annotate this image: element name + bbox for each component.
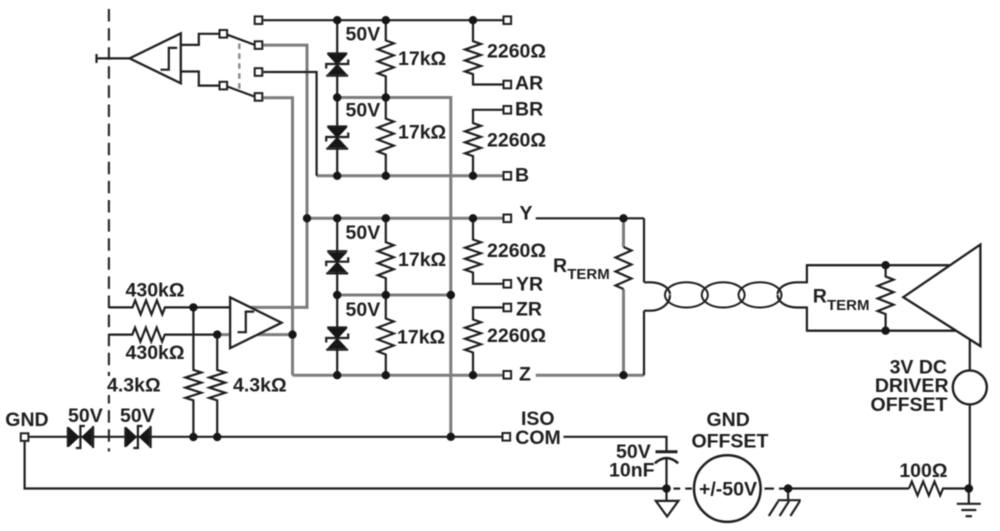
- wire ISO COM to capacitor: [564, 437, 667, 451]
- svg-text:BR: BR: [515, 99, 543, 121]
- wire switch pole mid to B rail: [263, 72, 316, 176]
- svg-text:100Ω: 100Ω: [899, 460, 947, 482]
- switch coupling dashed link: [238, 44, 240, 90]
- label 17k Y: [398, 249, 446, 271]
- svg-text:2260Ω: 2260Ω: [487, 240, 546, 262]
- resistor 100ohm: [909, 482, 969, 496]
- terminal square BR: [504, 106, 512, 114]
- svg-text:OFFSET: OFFSET: [691, 431, 768, 453]
- wire dashes to GND OFFSET source right: [765, 488, 785, 490]
- diode D2 TVS 50V: [326, 127, 348, 149]
- node ISO COM rail dots: [189, 433, 455, 442]
- svg-text:50V: 50V: [68, 405, 103, 427]
- svg-text:2260Ω: 2260Ω: [487, 130, 546, 152]
- label AR: [515, 72, 543, 94]
- wire node YZ (gray): [337, 294, 451, 297]
- label B: [515, 165, 529, 187]
- svg-text:17kΩ: 17kΩ: [398, 48, 446, 70]
- svg-text:10nF: 10nF: [609, 460, 655, 482]
- svg-text:2260Ω: 2260Ω: [487, 41, 546, 63]
- terminal square switch row4: [255, 93, 263, 101]
- wire dashes to GND OFFSET source left: [674, 488, 692, 490]
- wire ISO COM rail: [29, 436, 502, 438]
- op-amp U1 isolated receiver: [130, 33, 181, 83]
- svg-text:YR: YR: [516, 274, 543, 296]
- diode D1 TVS 50V: [326, 54, 348, 76]
- wire driver output to node (gray): [217, 333, 292, 336]
- wire cable entry Z: [643, 311, 645, 376]
- terminal square ZR: [504, 304, 512, 312]
- diode D4 TVS 50V: [326, 328, 348, 350]
- wire receiver inputs right side: [807, 265, 957, 331]
- wire receiver input A stub: [181, 34, 219, 45]
- wire node AB to ISO COM (gray): [337, 98, 451, 437]
- voltage source GND OFFSET +/-50V: [694, 455, 761, 522]
- label 4.3k right: [233, 375, 287, 397]
- svg-text:AR: AR: [515, 72, 543, 94]
- wire driver offset to bottom rail: [969, 404, 971, 488]
- label 17k Z: [397, 327, 445, 349]
- resistor RTERM left body: [616, 247, 632, 289]
- node YZ dots: [333, 291, 455, 299]
- label 430k upper: [126, 279, 185, 301]
- isolation barrier dashed line: [108, 9, 110, 452]
- label 50V cap: [616, 441, 651, 463]
- svg-text:430kΩ: 430kΩ: [126, 279, 185, 301]
- label +/-50V: [699, 479, 757, 501]
- label 2260 AR: [487, 41, 546, 63]
- resistor 17k A: [378, 20, 394, 97]
- svg-text:430kΩ: 430kΩ: [126, 342, 185, 364]
- wire top rail A: [263, 19, 502, 21]
- svg-text:TERM: TERM: [827, 297, 870, 314]
- resistor 4.3k left: [185, 307, 201, 437]
- label 10nF: [609, 460, 655, 482]
- diode D6 TVS 50V horizontal right: [125, 426, 150, 448]
- terminal square switch row1: [255, 16, 263, 24]
- label Z: [519, 364, 531, 386]
- terminal square switch row3: [255, 68, 263, 76]
- twisted pair lower strand: [644, 295, 957, 331]
- label RTERM left: [553, 255, 610, 283]
- terminal square pole A: [220, 30, 228, 38]
- resistor 17k Y: [378, 218, 394, 295]
- terminal square pole B: [220, 82, 228, 90]
- svg-text:R: R: [813, 286, 827, 308]
- label 50V D4: [346, 299, 381, 321]
- capacitor C1 50V 10nF: [655, 452, 678, 464]
- voltage source 3V DC DRIVER OFFSET: [953, 370, 987, 404]
- wire Z terminal to cable (gray): [536, 374, 644, 377]
- wire Z rail (gray): [293, 374, 504, 377]
- svg-text:4.3kΩ: 4.3kΩ: [107, 375, 161, 397]
- wire B rail (gray): [317, 174, 503, 177]
- switch lever A: [228, 35, 255, 45]
- resistor RTERM right: [878, 265, 894, 331]
- label GND: [5, 409, 48, 431]
- label BR: [515, 99, 543, 121]
- label 2260 BR: [487, 130, 546, 152]
- terminal square Y: [504, 215, 512, 223]
- terminal square A: [504, 16, 512, 24]
- wire switch pole B to driver top input (gray): [248, 45, 307, 307]
- label Y: [520, 202, 533, 224]
- resistor 2260 ZR: [465, 308, 503, 376]
- terminal square GND: [21, 433, 29, 441]
- wire capacitor to bottom rail: [665, 459, 667, 489]
- svg-text:4.3kΩ: 4.3kΩ: [233, 375, 287, 397]
- label 50V D5: [68, 405, 103, 427]
- diode D5 TVS 50V horizontal left: [68, 426, 93, 448]
- label GND OFFSET: [691, 409, 768, 453]
- label 4.3k left: [103, 375, 161, 397]
- terminal square ISO COM: [503, 433, 511, 441]
- node AB dots: [333, 93, 390, 101]
- resistor 4.3k right: [209, 335, 225, 438]
- svg-text:50V: 50V: [346, 299, 381, 321]
- terminal square YR: [504, 280, 512, 288]
- wire switch pole Z to Z rail (gray): [263, 98, 292, 376]
- resistor 17k B: [378, 98, 394, 176]
- node RTERM right dots: [881, 261, 889, 335]
- label 430k lower: [126, 342, 185, 364]
- svg-text:50V: 50V: [346, 100, 381, 122]
- svg-text:B: B: [515, 165, 529, 187]
- node bottom rail dots: [662, 484, 973, 493]
- resistor 2260 YR: [465, 218, 503, 283]
- ground ISO COM triangle: [656, 489, 679, 517]
- svg-text:Z: Z: [519, 364, 531, 386]
- label ZR: [516, 299, 542, 321]
- wire Y rail (gray): [307, 217, 503, 220]
- label ISO COM: [515, 408, 561, 449]
- svg-text:GND: GND: [5, 409, 48, 431]
- svg-text:2260Ω: 2260Ω: [487, 325, 546, 347]
- node 430k dots: [189, 303, 221, 339]
- terminal square AR: [504, 81, 512, 89]
- label 17k B: [398, 121, 446, 143]
- ground chassis earth: [769, 489, 801, 517]
- wire cable entry Y: [643, 218, 645, 282]
- terminal square Z: [504, 371, 512, 379]
- svg-text:COM: COM: [515, 427, 561, 449]
- svg-text:GND: GND: [707, 409, 750, 431]
- terminal square switch row2: [255, 41, 263, 49]
- label 17k A: [398, 48, 446, 70]
- label 50V D6: [120, 405, 155, 427]
- terminal square B: [504, 172, 512, 180]
- label 2260 YR: [487, 240, 546, 262]
- switch lever B: [228, 87, 255, 97]
- wire driver offset to receiver: [969, 340, 971, 371]
- diode column lead A: [336, 20, 338, 97]
- svg-text:17kΩ: 17kΩ: [397, 327, 445, 349]
- diode column lead B: [336, 98, 338, 176]
- wire Y terminal to cable: [536, 217, 644, 219]
- label RTERM right: [813, 286, 870, 315]
- label 50V D1: [346, 23, 381, 45]
- svg-text:17kΩ: 17kΩ: [398, 249, 446, 271]
- label 50V D2: [346, 100, 381, 122]
- label 3V DC DRIVER OFFSET: [871, 356, 949, 416]
- op-amp U3 remote receiver: [903, 245, 980, 347]
- label YR: [516, 274, 543, 296]
- op-amp U2 isolated driver: [230, 297, 282, 348]
- svg-text:50V: 50V: [346, 222, 381, 244]
- svg-text:+/-50V: +/-50V: [699, 479, 757, 501]
- wire bottom rail to 100ohm: [788, 487, 909, 489]
- resistor 2260 AR: [465, 20, 503, 84]
- wire RTERM upper lead (gray): [622, 218, 625, 247]
- label 2260 ZR: [487, 325, 546, 347]
- label 100ohm: [899, 460, 947, 482]
- wire 430k upper input: [109, 300, 230, 314]
- svg-text:17kΩ: 17kΩ: [398, 121, 446, 143]
- wire receiver input B stub: [181, 72, 219, 86]
- svg-text:50V: 50V: [346, 23, 381, 45]
- twisted pair upper strand: [644, 265, 950, 294]
- svg-text:TERM: TERM: [567, 266, 610, 283]
- node driver output dot: [288, 330, 296, 338]
- wire GND to bottom rail: [25, 442, 667, 489]
- svg-text:R: R: [553, 255, 567, 277]
- node Z rail dots: [333, 371, 628, 379]
- label 50V D3: [346, 222, 381, 244]
- diode column lead Z: [336, 295, 338, 375]
- twisted pair loops: [665, 282, 782, 307]
- svg-text:ZR: ZR: [516, 299, 542, 321]
- wire RTERM lower lead (gray): [622, 289, 625, 375]
- diode column lead Y: [336, 218, 338, 295]
- resistor 17k Z: [378, 295, 394, 375]
- resistor 430k lower input: [109, 328, 217, 342]
- node Y rail dots: [303, 214, 628, 222]
- node B rail dots: [333, 172, 477, 180]
- diode D3 TVS 50V: [326, 251, 348, 273]
- node top rail dots: [333, 16, 477, 24]
- svg-text:Y: Y: [520, 202, 533, 224]
- svg-text:OFFSET: OFFSET: [871, 394, 948, 416]
- resistor 2260 BR: [465, 110, 503, 176]
- svg-text:50V: 50V: [120, 405, 155, 427]
- wire receiver output: [97, 54, 130, 63]
- ground IEC right: [957, 489, 981, 517]
